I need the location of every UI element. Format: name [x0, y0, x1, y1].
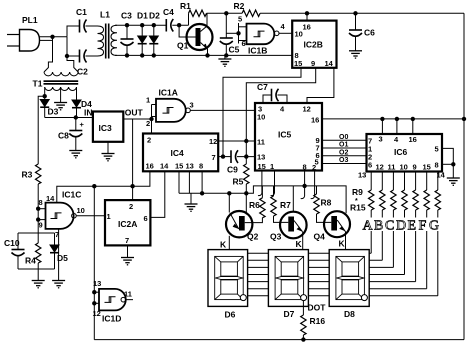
diode D1 — [137, 11, 148, 58]
svg-text:D3: D3 — [48, 107, 59, 117]
svg-text:B: B — [374, 219, 383, 234]
letter A — [362, 218, 375, 234]
wire segment bus b — [248, 259, 383, 261]
node IC6 pin4 — [395, 117, 399, 121]
plug PL1 — [7, 15, 40, 51]
svg-text:O0: O0 — [339, 134, 348, 141]
svg-text:IC2A: IC2A — [118, 219, 137, 229]
svg-text:13: 13 — [257, 153, 265, 162]
node IC1C pin8 — [36, 207, 40, 211]
gate IC1A — [146, 88, 194, 134]
svg-text:8: 8 — [39, 198, 43, 207]
svg-text:R2: R2 — [234, 1, 245, 11]
resistor R6 — [249, 186, 265, 218]
node right rail — [462, 117, 466, 121]
svg-text:D7: D7 — [284, 309, 295, 319]
wire segment bus e — [248, 281, 416, 283]
wire vertical to bottom rail — [93, 186, 95, 339]
node IC5 pin11 net — [244, 139, 248, 143]
wire base rail B — [179, 186, 346, 213]
svg-text:R1: R1 — [180, 1, 191, 11]
svg-text:IC4: IC4 — [171, 148, 185, 158]
node IC6 pin3 — [380, 117, 384, 121]
svg-text:8: 8 — [303, 163, 307, 172]
svg-text:D1: D1 — [137, 11, 148, 21]
node W1 at x94 — [92, 184, 96, 188]
wire IC1C out to IC2A pin1 — [76, 215, 105, 217]
svg-text:10: 10 — [400, 163, 408, 172]
wire IC4 pin7 to C9 — [218, 156, 231, 158]
svg-text:C3: C3 — [121, 11, 132, 21]
wire O2 — [322, 155, 367, 157]
svg-text:C1: C1 — [76, 7, 87, 17]
diode D3 — [40, 96, 58, 117]
svg-text:Q3: Q3 — [270, 232, 282, 242]
svg-text:10: 10 — [295, 30, 303, 39]
svg-text:6: 6 — [242, 39, 246, 48]
inductor L1 — [98, 10, 118, 59]
svg-text:13: 13 — [358, 171, 366, 180]
svg-text:2: 2 — [146, 119, 150, 128]
node pin8 loop — [451, 162, 455, 166]
letter C — [385, 218, 397, 234]
gate IC1B — [226, 15, 285, 56]
svg-text:13: 13 — [93, 279, 101, 288]
wire IC4 pin8 down — [201, 171, 203, 193]
ground T1 center tap — [54, 87, 67, 110]
wire bottom rail — [94, 339, 464, 341]
wire IC6 pin4 stub — [396, 119, 398, 134]
capacitor C7 — [257, 82, 287, 103]
wire DOT to R16 — [302, 301, 304, 315]
svg-text:8: 8 — [199, 162, 203, 171]
wire IC4 pin15 down — [178, 171, 180, 193]
svg-text:12: 12 — [93, 309, 101, 318]
resistor R1 — [180, 1, 207, 25]
svg-text:D2: D2 — [149, 11, 160, 21]
letter D — [396, 218, 409, 234]
ground below R4 network — [32, 269, 45, 288]
svg-text:IC1D: IC1D — [102, 314, 121, 324]
svg-text:5: 5 — [238, 15, 242, 24]
IC IC3 regulator — [84, 108, 144, 142]
resistor R4 — [25, 233, 41, 269]
svg-text:K: K — [220, 240, 227, 250]
node Q2 net — [227, 191, 231, 195]
ground IC1C pin7 — [52, 229, 65, 288]
svg-text:D6: D6 — [225, 310, 236, 320]
node Q1 emitter — [205, 53, 209, 57]
letter G — [429, 218, 442, 234]
svg-text:C10: C10 — [4, 238, 20, 248]
svg-text:C8: C8 — [58, 131, 69, 141]
svg-text:11: 11 — [388, 163, 396, 172]
diode D5 — [50, 233, 68, 269]
capacitor C8 — [58, 118, 85, 151]
resistor chain f — [424, 172, 429, 289]
wire R4 network top — [18, 232, 55, 234]
wire segment bus c — [248, 266, 394, 268]
node IC5 pin8 junction — [302, 184, 306, 188]
transistor Q2 — [226, 193, 262, 249]
svg-text:16: 16 — [311, 116, 319, 125]
svg-text:L1: L1 — [100, 10, 110, 20]
ground IC4 pins — [185, 193, 198, 211]
wire IC6 pin8 — [442, 163, 453, 165]
IC IC4 — [143, 134, 218, 172]
svg-text:C4: C4 — [163, 7, 174, 17]
wire O1 — [322, 147, 367, 149]
svg-text:IC2B: IC2B — [304, 40, 323, 50]
node C2 junction — [65, 54, 69, 58]
svg-text:6: 6 — [368, 161, 372, 170]
wire IC1B out to IC2B pin10 — [279, 32, 292, 34]
gate IC1D — [92, 279, 133, 324]
svg-text:OUT: OUT — [125, 108, 144, 118]
svg-text:12: 12 — [303, 105, 311, 114]
svg-text:D8: D8 — [344, 309, 355, 319]
wire IC6 pin16 stub — [412, 119, 414, 134]
IC IC2B — [292, 11, 336, 68]
wire IC1A out to IC5 pin10 — [190, 109, 255, 111]
wire IC2B pin9 down — [246, 68, 315, 164]
diode D2 — [149, 11, 160, 58]
svg-text:IN: IN — [84, 108, 93, 118]
resistor R5 — [233, 164, 250, 193]
node IC6 pin16 — [411, 117, 415, 121]
wire OUT rail — [123, 118, 151, 120]
node C9 right — [244, 154, 248, 158]
svg-text:C: C — [385, 219, 394, 234]
capacitor C1 — [76, 7, 87, 33]
wire top rail — [207, 12, 243, 14]
wire IC4 pin13 down — [188, 171, 190, 193]
wire IC5 pin1 stub — [271, 171, 275, 196]
svg-text:D5: D5 — [57, 253, 68, 263]
svg-text:8: 8 — [435, 161, 439, 170]
svg-text:1: 1 — [146, 96, 150, 105]
svg-text:15: 15 — [294, 59, 302, 68]
resistor chain d — [402, 172, 407, 275]
svg-text:C5: C5 — [229, 45, 240, 55]
svg-text:9: 9 — [413, 163, 417, 172]
wire segment bus f — [248, 288, 427, 290]
letter F — [418, 218, 429, 234]
wire IC5 pin16 to right rail — [322, 118, 464, 120]
node IN junction — [74, 115, 78, 119]
resistor R2 — [234, 1, 261, 17]
wire base — [179, 25, 195, 37]
svg-text:14: 14 — [325, 59, 334, 68]
svg-text:O3: O3 — [339, 157, 348, 164]
svg-text:14: 14 — [160, 162, 169, 171]
svg-text:1: 1 — [107, 212, 111, 221]
wire IC6 pin3 stub — [381, 119, 383, 134]
svg-text:6: 6 — [144, 214, 148, 223]
svg-text:11: 11 — [257, 138, 265, 147]
svg-text:16: 16 — [303, 23, 311, 32]
ground IC2A pin7 — [121, 245, 134, 264]
svg-text:15: 15 — [423, 163, 431, 172]
svg-text:C2: C2 — [77, 67, 88, 77]
svg-text:7: 7 — [212, 153, 216, 162]
svg-text:F: F — [419, 219, 427, 234]
svg-text:14: 14 — [46, 194, 55, 203]
svg-text:R3: R3 — [22, 170, 33, 180]
wire IC2B pin15 down — [223, 68, 301, 157]
ground below IC3 — [102, 142, 115, 161]
capacitor C10 — [4, 233, 25, 269]
svg-text:15: 15 — [258, 162, 266, 171]
svg-text:R15: R15 — [350, 203, 366, 213]
svg-text:R4: R4 — [25, 256, 36, 266]
wire junction down to T1 — [48, 37, 52, 65]
ground IC6 pin8 — [447, 178, 460, 185]
svg-text:R5: R5 — [233, 177, 244, 187]
transformer T1 — [33, 56, 79, 100]
wire top rail right — [260, 12, 464, 14]
svg-text:1: 1 — [270, 162, 274, 171]
svg-text:2: 2 — [147, 136, 151, 145]
svg-text:R7: R7 — [280, 200, 291, 210]
svg-text:10: 10 — [77, 206, 85, 215]
svg-text:15: 15 — [175, 162, 183, 171]
node C9 left — [221, 154, 225, 158]
svg-text:K: K — [296, 239, 303, 249]
svg-text:7: 7 — [125, 236, 129, 245]
resistor R9 chain a — [369, 172, 374, 254]
svg-text:PL1: PL1 — [22, 15, 38, 25]
resistor R15 chain g — [435, 172, 440, 296]
svg-text:9: 9 — [311, 59, 315, 68]
svg-text:IC1A: IC1A — [159, 88, 178, 98]
svg-text:R8: R8 — [321, 198, 332, 208]
wire O3 — [322, 163, 367, 165]
wire plug to junction — [40, 36, 68, 38]
wire W1 Vcc distribution — [57, 171, 150, 202]
svg-text:A: A — [363, 219, 374, 234]
svg-text:T1: T1 — [33, 79, 43, 89]
node mains junction — [50, 35, 54, 39]
capacitor C2 — [77, 50, 88, 77]
resistor R3 — [22, 164, 41, 233]
svg-text:Q4: Q4 — [314, 232, 326, 242]
capacitor C9 — [227, 150, 255, 174]
svg-text:12: 12 — [209, 137, 217, 146]
svg-text:IC1C: IC1C — [62, 190, 81, 200]
node T1 secondary left — [43, 94, 47, 98]
svg-text:2: 2 — [312, 163, 316, 172]
svg-text:R6: R6 — [249, 200, 260, 210]
svg-text:O1: O1 — [339, 142, 348, 149]
IC IC6 — [358, 134, 446, 180]
svg-text:Q1: Q1 — [177, 41, 189, 51]
node IC4 pin8 junction — [200, 191, 204, 195]
svg-text:E: E — [408, 219, 417, 234]
capacitor C3 — [121, 11, 134, 58]
node IC1C pin9 — [36, 217, 40, 221]
wire IN node — [45, 117, 93, 119]
IC IC5 — [255, 103, 322, 172]
svg-text:D: D — [396, 219, 406, 234]
wire L1 to top rail — [115, 24, 166, 26]
capacitor C4 — [163, 7, 189, 32]
resistor chain b — [380, 172, 385, 261]
svg-text:R9: R9 — [352, 187, 363, 197]
node Q1 base — [177, 23, 181, 27]
wire IC4 pin12 to IC5 pin11 — [218, 140, 255, 142]
display D8 — [329, 250, 369, 319]
resistor chain e — [413, 172, 418, 282]
svg-text:2: 2 — [129, 202, 133, 211]
svg-text:Q2: Q2 — [247, 232, 259, 242]
letter E — [407, 218, 419, 234]
svg-text:9: 9 — [39, 221, 43, 230]
letter B — [374, 218, 386, 234]
diode D4 — [72, 99, 92, 118]
wire IC5 pin15 stub — [258, 171, 262, 196]
wire IC2B pin14 down — [307, 68, 334, 103]
capacitor C6 — [349, 11, 375, 51]
svg-text:R16: R16 — [310, 316, 326, 326]
resistor R7 — [271, 186, 291, 216]
svg-text:12: 12 — [376, 163, 384, 172]
svg-text:5: 5 — [435, 145, 439, 154]
wire IC2A pin6 to IC4 pin14 — [150, 171, 164, 217]
resistor R8 — [314, 186, 332, 214]
node R5 bottom — [244, 191, 248, 195]
svg-text:10: 10 — [257, 113, 265, 122]
transistor Q4 — [314, 211, 351, 249]
node W1 at OUT rail — [130, 184, 134, 188]
wire C1 branch — [67, 26, 98, 37]
svg-text:K: K — [339, 239, 346, 249]
IC IC2A — [105, 200, 150, 245]
svg-text:C7: C7 — [257, 82, 268, 92]
svg-text:16: 16 — [409, 135, 417, 144]
capacitor C5 — [220, 11, 240, 58]
svg-text:11: 11 — [124, 290, 132, 299]
wire — [40, 39, 53, 41]
ground below C5 — [218, 55, 231, 66]
svg-text:DOT: DOT — [308, 303, 327, 313]
display D7 — [268, 250, 308, 319]
svg-text:3: 3 — [190, 101, 194, 110]
wire O0 — [322, 139, 367, 141]
wire L1 to bottom rail — [115, 54, 292, 56]
wire segment bus g — [248, 295, 438, 297]
svg-text:13: 13 — [186, 162, 194, 171]
wire IC6 pin5 pin8 loop — [442, 148, 453, 178]
wire R4 network bottom — [18, 268, 55, 270]
svg-text:C9: C9 — [227, 165, 238, 175]
svg-text:IC6: IC6 — [394, 147, 408, 157]
display D6 — [208, 250, 248, 320]
ground below C6 — [349, 51, 362, 58]
svg-text:IC3: IC3 — [99, 123, 113, 133]
svg-text:O2: O2 — [339, 149, 348, 156]
svg-text:3: 3 — [379, 135, 383, 144]
wire right rail — [463, 13, 465, 339]
svg-text:IC5: IC5 — [278, 130, 292, 140]
wire OUT down — [132, 119, 134, 200]
ground below C8 — [69, 151, 82, 158]
svg-text:16: 16 — [146, 162, 154, 171]
wire C2 branch — [67, 37, 98, 56]
gate IC1C — [38, 190, 85, 240]
resistor chain c — [391, 172, 396, 268]
wire IC5 pin2 stub — [311, 171, 315, 199]
wire segment bus a — [248, 252, 372, 254]
wire segment bus d — [248, 274, 405, 276]
svg-text:C6: C6 — [364, 28, 375, 38]
wire IC5 pin8 stub — [301, 171, 305, 199]
transistor Q3 — [270, 186, 307, 250]
resistor R16 — [301, 303, 327, 342]
transistor Q1 — [177, 13, 213, 55]
svg-text:IC1B: IC1B — [248, 46, 267, 56]
svg-text:+: + — [80, 120, 85, 129]
svg-text:G: G — [429, 219, 439, 234]
wire to R3 — [38, 96, 45, 164]
